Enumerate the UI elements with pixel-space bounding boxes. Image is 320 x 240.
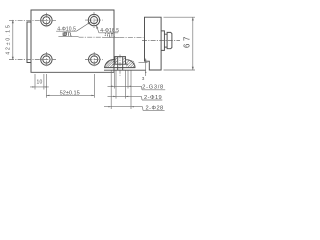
svg-text:2-Φ19: 2-Φ19	[144, 95, 162, 101]
section: hole walls	[117, 57, 119, 71]
dim row 2 line	[108, 95, 142, 97]
svg-text:4-Φ10.5: 4-Φ10.5	[57, 27, 76, 33]
main horizontal centerline part 1	[79, 36, 103, 38]
Φ19 pair verticals	[115, 71, 117, 99]
section port dimensions (stacked)	[104, 71, 165, 111]
Φ28 pair verticals	[110, 71, 112, 110]
hole TR outer	[88, 14, 99, 25]
section: second shoulder	[104, 67, 135, 69]
section: collar outline	[115, 57, 126, 65]
svg-text:2-G3/8: 2-G3/8	[142, 85, 164, 91]
notch dimension	[139, 59, 148, 77]
dim line 10 (outside arrows)	[30, 86, 49, 88]
left pad protrusion	[27, 22, 31, 63]
centerline TR horizontal	[85, 19, 103, 21]
hole TL outer	[41, 15, 52, 26]
svg-text:42±0.15: 42±0.15	[5, 23, 11, 54]
dimension 42±0.15	[12, 20, 14, 60]
svg-text:2-Φ28: 2-Φ28	[146, 105, 164, 111]
centerline BR vertical	[93, 52, 95, 67]
port vertical centerline (section)	[119, 55, 121, 76]
centerline BL vertical	[45, 52, 47, 67]
svg-text:67: 67	[183, 34, 192, 48]
hole BR outer	[89, 54, 100, 65]
hatching left lobe	[105, 58, 117, 68]
side view block	[145, 17, 172, 70]
centerline TL horizontal	[9, 19, 56, 21]
dim row 3 line	[104, 106, 143, 108]
section: first shoulder	[113, 63, 128, 65]
section: left fillet lobe	[105, 60, 115, 68]
dimension 67	[164, 17, 196, 70]
svg-text:52±0.15: 52±0.15	[60, 90, 80, 96]
faked CJK 通孔	[63, 33, 72, 36]
hole BR inner	[91, 56, 98, 63]
faked CJK 沉孔	[105, 33, 115, 37]
hole BL outer	[41, 54, 52, 65]
section: right fillet lobe	[126, 60, 136, 68]
dim row 1 line	[108, 85, 142, 87]
hole TL inner	[43, 17, 50, 24]
svg-text:10: 10	[36, 80, 42, 86]
leader to outer circle	[96, 25, 99, 32]
hole BL inner	[43, 56, 50, 63]
boss flange	[161, 31, 164, 51]
hole TR inner	[90, 17, 97, 24]
centerline TR vertical	[93, 12, 95, 28]
bottom extension lines	[30, 74, 94, 98]
G3/8 pair verticals	[113, 71, 115, 89]
boss centerline	[142, 40, 180, 42]
boss cap with chamfers	[167, 32, 172, 48]
plate outline (front view)	[31, 10, 114, 72]
dim line 52	[46, 94, 94, 96]
leader to inner circle	[76, 22, 90, 31]
svg-text:3: 3	[142, 76, 145, 81]
section: bottom line	[104, 57, 146, 71]
centerline TL vertical	[45, 13, 47, 28]
boss neck	[164, 34, 167, 47]
centerline BR horizontal	[85, 59, 103, 61]
main horizontal centerline part 2	[119, 37, 143, 39]
hatching right lobe	[123, 58, 135, 68]
centerline BL horizontal	[9, 59, 56, 61]
